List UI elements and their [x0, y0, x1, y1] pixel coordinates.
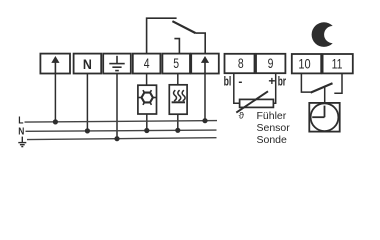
clock hands — [312, 106, 324, 118]
terminal cell 8 — [225, 54, 255, 73]
svg-text:Sensor: Sensor — [257, 122, 291, 134]
heating load box — [169, 85, 187, 114]
svg-text:Fühler: Fühler — [257, 110, 287, 122]
svg-text:bl: bl — [224, 74, 232, 89]
sensor wire left — [234, 73, 240, 103]
moon symbol (night setback) — [312, 22, 333, 47]
wire heating box to N line — [177, 114, 179, 130]
wire blade to clock — [324, 87, 326, 103]
terminal cell arrow (L in) — [40, 54, 70, 74]
terminal cell arrow out — [191, 54, 219, 74]
terminal cell 9 — [256, 54, 285, 73]
svg-text:L: L — [18, 115, 23, 126]
terminal cell 4 — [133, 54, 161, 74]
junction dot cell1/L — [53, 119, 58, 124]
svg-text:N: N — [83, 56, 92, 72]
junction dot cell2/N — [85, 128, 90, 133]
wire cell5 to heating box — [177, 74, 179, 86]
vertical wire cell1 to L line — [54, 74, 56, 122]
svg-text:ϑ: ϑ — [239, 111, 245, 122]
arrow in cell 6 (phase) — [201, 56, 209, 74]
arrow in cell 1 (phase in) — [51, 56, 59, 74]
timer switch blade — [311, 83, 333, 92]
svg-text:10: 10 — [298, 56, 310, 71]
svg-text:11: 11 — [332, 56, 343, 71]
junction dot cooling/N — [144, 128, 149, 133]
svg-text:Sonde: Sonde — [257, 134, 288, 146]
vertical wire cell3 to earth line — [116, 74, 118, 139]
clock circle — [311, 103, 339, 131]
earth symbol bottom left — [18, 137, 26, 147]
vertical wire cell6 to L line — [204, 74, 206, 121]
timer switch wire right — [334, 73, 342, 93]
terminal cell earth — [103, 54, 131, 74]
terminal cell 11 — [323, 54, 353, 73]
snowflake symbol (cooling) — [138, 90, 156, 105]
terminal cell N — [74, 54, 102, 74]
N line — [26, 130, 217, 131]
fixed contact above terminal 5 — [174, 39, 179, 54]
timer switch wire left — [301, 73, 310, 92]
sensor wire right — [273, 73, 275, 103]
clock box — [309, 103, 339, 132]
terminal cell 10 — [292, 54, 321, 73]
svg-text:5: 5 — [173, 56, 179, 71]
wire blade to terminal 6 — [196, 33, 206, 54]
sensor resistor body — [240, 99, 274, 107]
svg-text:9: 9 — [268, 56, 274, 71]
switch blade — [172, 21, 195, 33]
svg-text:4: 4 — [144, 56, 150, 71]
svg-text:+: + — [268, 74, 275, 88]
junction dot cell6/L — [202, 118, 207, 123]
svg-text:br: br — [278, 73, 286, 88]
svg-text:N: N — [18, 127, 24, 138]
junction dot cell3/earth — [114, 136, 119, 141]
svg-text:-: - — [238, 74, 242, 88]
cooling load box — [138, 85, 157, 114]
terminal cell 5 — [162, 54, 190, 74]
earth line — [27, 138, 217, 140]
svg-text:8: 8 — [238, 56, 244, 71]
relay contact wiring above terminals 4/5/6 — [147, 18, 206, 53]
wire terminal4 up and right — [147, 18, 177, 53]
heating symbol squiggles — [172, 90, 185, 102]
L line — [25, 121, 218, 123]
vertical wire cell2 to N line — [86, 74, 88, 131]
sensor diagonal stroke — [236, 91, 268, 112]
earth symbol in cell 3 — [109, 56, 124, 71]
wire cell4 to cooling box — [146, 74, 148, 86]
wire cooling box to N line — [146, 114, 148, 131]
junction dot heating/N — [175, 128, 180, 133]
